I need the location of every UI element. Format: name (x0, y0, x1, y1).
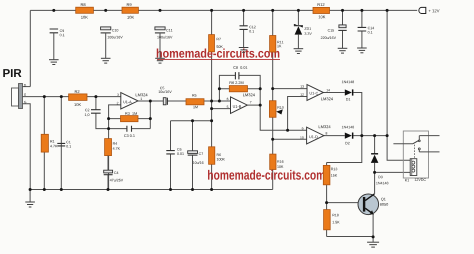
wire R3 feedback row (109, 118, 151, 120)
wire R1 leg (43, 97, 45, 190)
wire C7 leg (192, 121, 194, 190)
wire U1-A inverting branch (109, 105, 121, 190)
ground below C9 (49, 33, 59, 65)
zener ZD1 (294, 10, 311, 48)
resistor R7 (209, 35, 223, 52)
resistor R2 (69, 90, 87, 106)
capacitor C2 (85, 109, 101, 117)
wire U1-B pin5 stub (212, 108, 231, 110)
wire collector leg (375, 172, 411, 194)
wire PIR signal row (23, 96, 121, 98)
capacitor C10 (101, 27, 123, 39)
capacitor C11 (155, 27, 173, 39)
wire C6 leg (170, 121, 172, 190)
relay K1 (393, 131, 439, 181)
wire signal to comparators (260, 97, 307, 131)
op-amp U1-C (300, 85, 332, 101)
resistor R12 (313, 3, 330, 18)
capacitor C8 (233, 66, 247, 79)
wire +12V drop to relay coil (387, 10, 410, 160)
resistor R3 (121, 112, 139, 122)
resistor R1 (41, 134, 57, 152)
wire U1-D output (324, 135, 345, 137)
ground below C10 (101, 33, 111, 63)
capacitor C1 (57, 141, 71, 148)
capacitor C12 (239, 9, 256, 52)
ground below C11 (155, 33, 165, 63)
PIR sensor (3, 69, 26, 108)
ground below ZD1 (294, 49, 304, 54)
wire D2 output row (353, 135, 387, 137)
capacitor C6 (166, 148, 184, 155)
resistor R6 (229, 81, 247, 91)
watermark homemade-circuits.com lower (208, 170, 325, 180)
wire C3 right segment (132, 128, 151, 130)
wire top supply rail (30, 10, 417, 86)
wire pin13 reference row (273, 88, 307, 90)
op-amp U1-B (227, 93, 255, 113)
wire PIR drain stub (23, 86, 31, 88)
wire U1-C output (323, 92, 344, 94)
op-amp U1-D (300, 125, 330, 144)
capacitor C15 (321, 10, 347, 48)
wire C2 branch (96, 97, 127, 129)
resistor R11 (270, 36, 284, 53)
capacitor C5 (159, 87, 172, 105)
wire PIR ground leg (23, 104, 31, 190)
capacitor C14 (358, 10, 375, 47)
wire R13-R18 chain (327, 163, 374, 237)
resistor R18 (324, 210, 340, 230)
resistor R13 (323, 165, 337, 184)
capacitor C3 (124, 126, 135, 137)
ground below Q1 (367, 237, 379, 247)
resistor R9 (122, 3, 138, 18)
wire lowpass row y120.7 (171, 120, 212, 122)
wire U1-B feedback loop (219, 75, 260, 105)
preset R10 (269, 101, 283, 118)
wire ground rail (30, 189, 273, 191)
wire emitter leg (372, 214, 374, 237)
wire D1 output to OR node (327, 93, 362, 163)
resistor R5 (186, 94, 204, 108)
transistor Q1 (358, 194, 388, 215)
ground below C15 (338, 48, 348, 53)
diode D3 (371, 153, 389, 184)
resistor R6b 100K (209, 147, 225, 165)
diode D2 (342, 126, 354, 145)
diode D1 (342, 81, 354, 101)
wire U1-A output / C5 / R5 row (138, 101, 231, 129)
ground below C14 (357, 48, 367, 53)
wire bias chain x211.6 (211, 10, 213, 189)
resistor R16 (270, 154, 284, 169)
wire C1 leg (60, 97, 62, 190)
resistor R4 (105, 139, 120, 156)
wire D3 leg (374, 136, 376, 173)
wire U1-B output (247, 104, 260, 106)
wire reference chain x272.7 (272, 10, 274, 189)
capacitor C4 (104, 156, 123, 190)
ground rail symbol (25, 190, 35, 208)
resistor R8 (76, 3, 94, 18)
watermark homemade-circuits.com upper (157, 49, 280, 60)
capacitor C7 (188, 151, 204, 164)
capacitor C9 (50, 29, 65, 36)
terminal +12V (419, 7, 440, 13)
wire base row (327, 202, 364, 204)
op-amp U1-A (117, 93, 148, 110)
wire pin10 reference row (273, 138, 307, 140)
